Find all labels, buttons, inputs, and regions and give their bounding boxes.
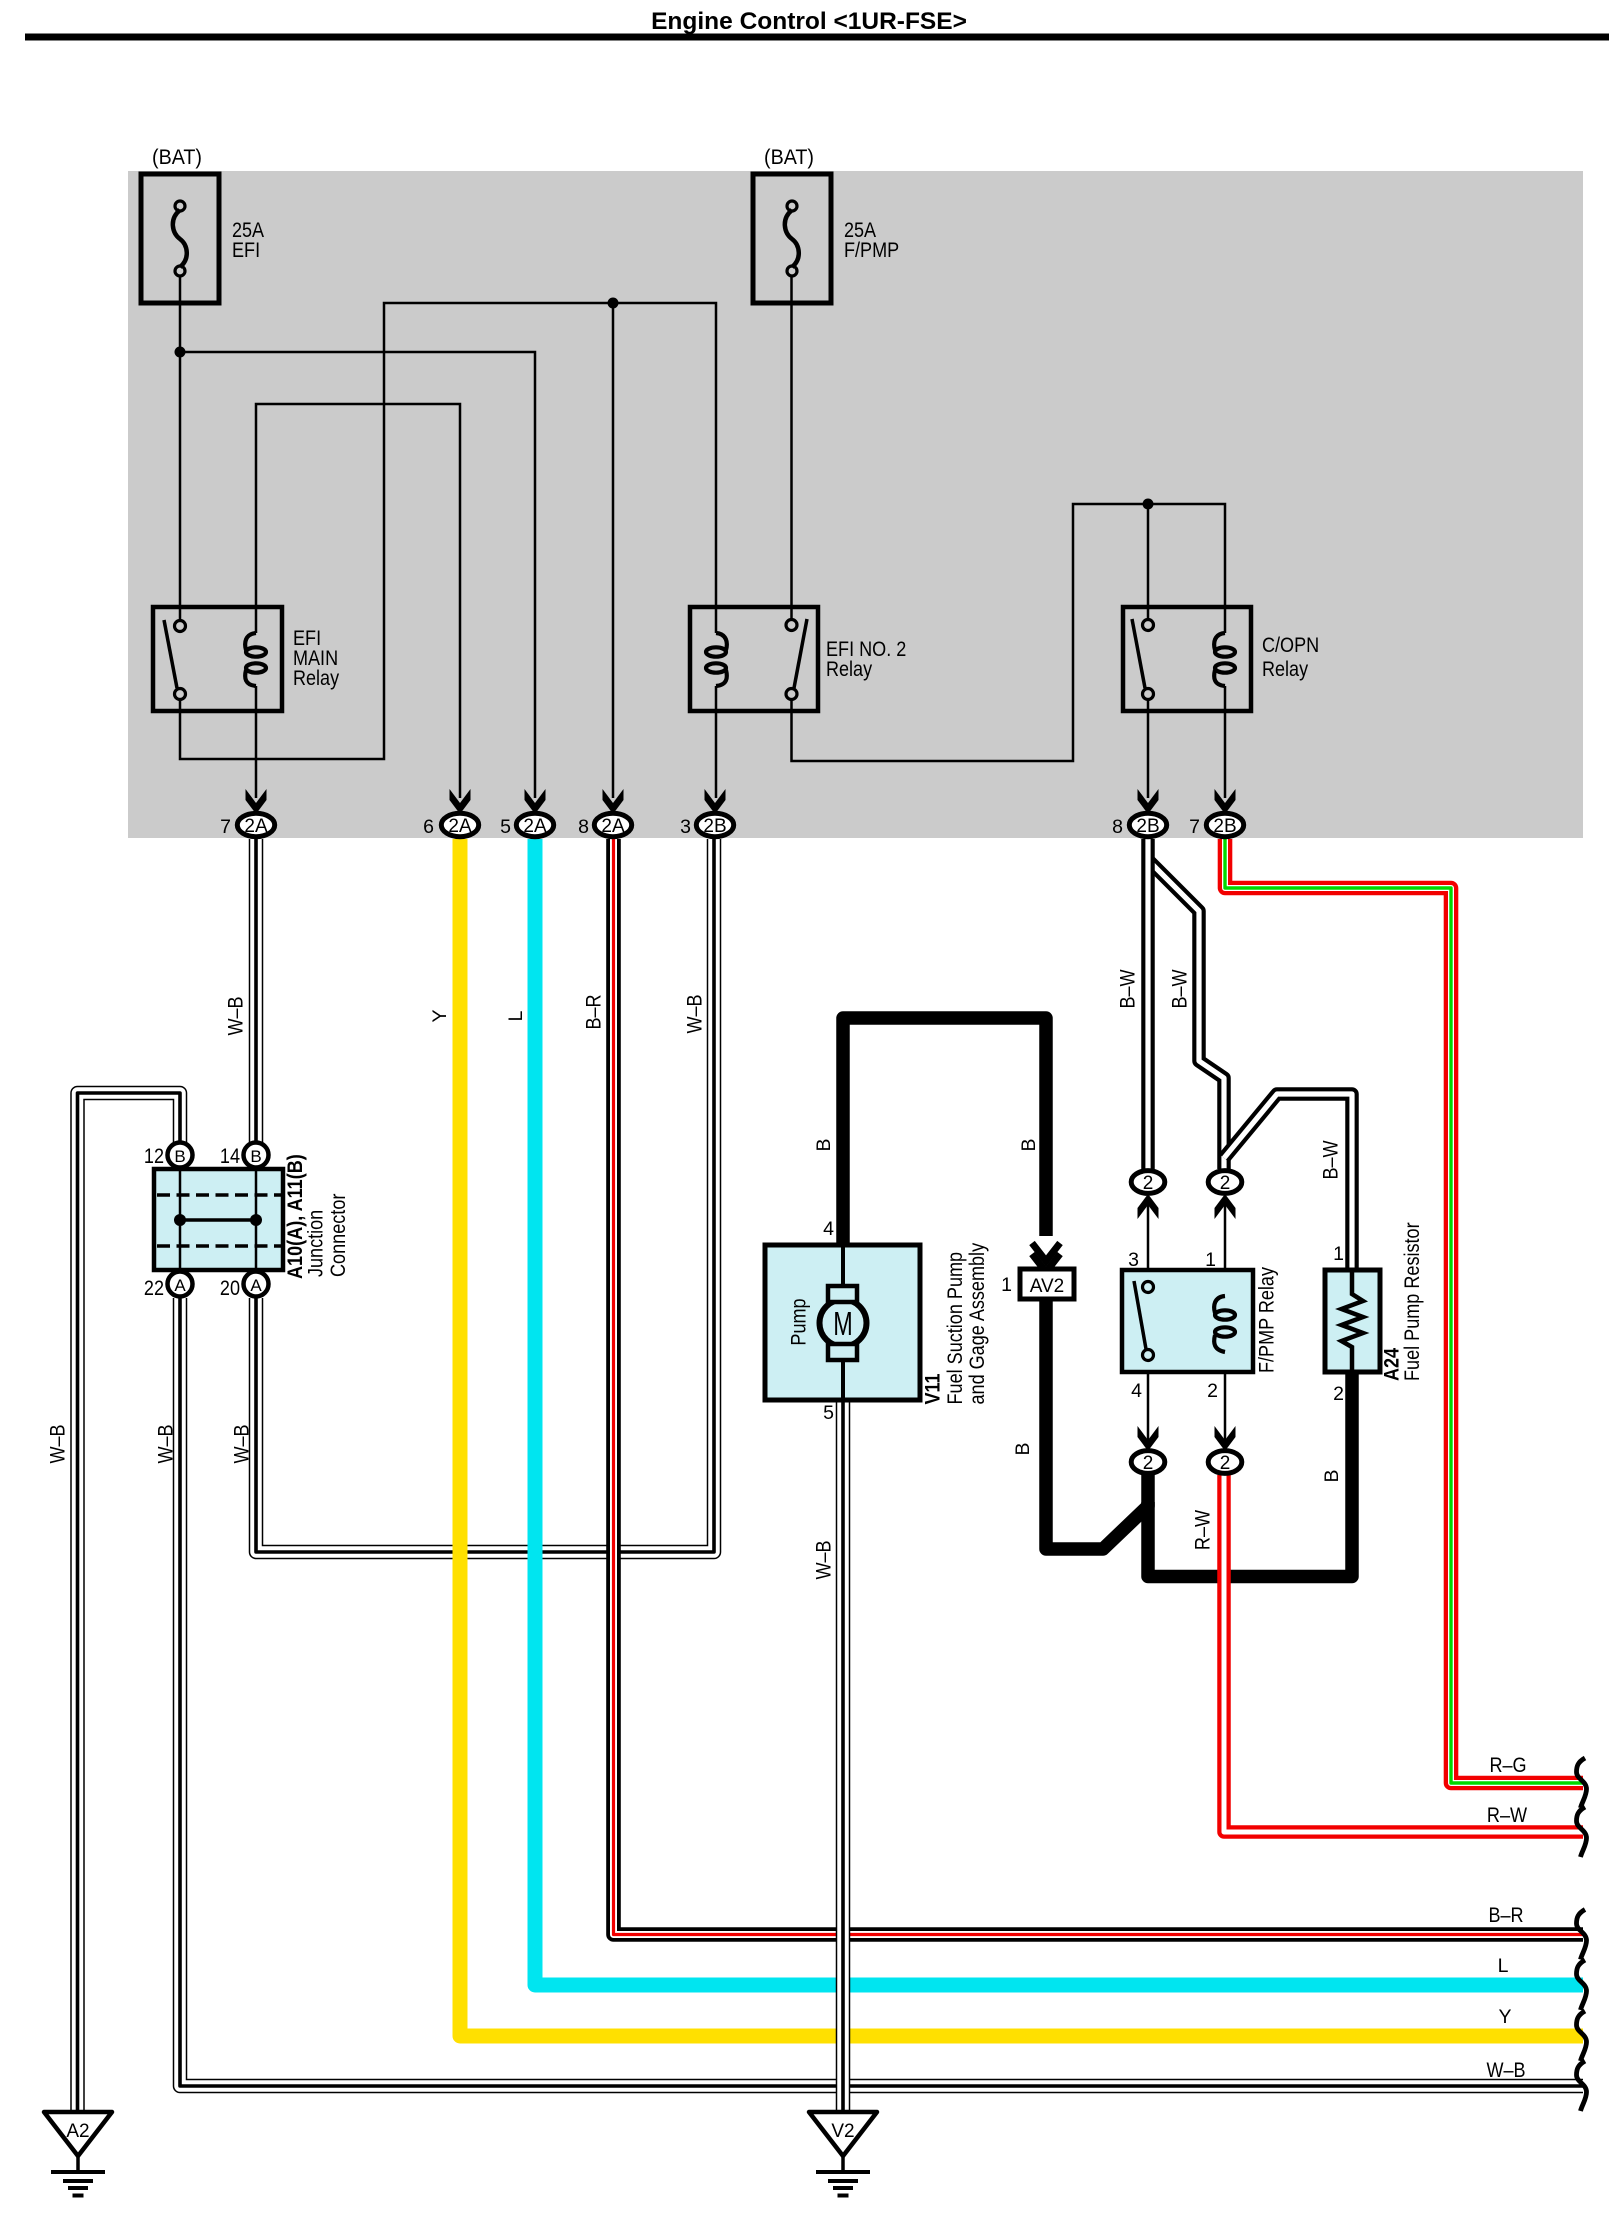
svg-text:B–W: B–W xyxy=(1117,969,1140,1008)
svg-text:F/PMP: F/PMP xyxy=(844,239,899,262)
relay EFI MAIN U1 xyxy=(153,607,340,711)
ground A2 xyxy=(44,2112,112,2196)
svg-text:12: 12 xyxy=(144,1145,164,1168)
svg-text:2: 2 xyxy=(1143,1453,1154,1474)
svg-text:2B: 2B xyxy=(703,816,726,837)
svg-text:A: A xyxy=(174,1276,186,1295)
svg-text:and Gage Assembly: and Gage Assembly xyxy=(966,1242,989,1404)
fuse EFI 25A xyxy=(141,146,264,303)
svg-text:3: 3 xyxy=(680,816,691,838)
wire B-W from pin1 connector to A24 pin1 xyxy=(1224,1094,1352,1270)
wire B-W branch from 8(2B) to F/PMP relay pin1 connector xyxy=(1148,860,1224,1169)
svg-text:2: 2 xyxy=(1220,1173,1231,1194)
svg-text:A2: A2 xyxy=(66,2121,89,2142)
svg-text:Connector: Connector xyxy=(327,1194,350,1277)
svg-text:B–R: B–R xyxy=(1488,1904,1523,1927)
svg-text:B: B xyxy=(1321,1469,1343,1482)
svg-text:W–B: W–B xyxy=(231,1424,254,1463)
connector 2 pin2 F/PMP relay xyxy=(1208,1426,1242,1474)
connector 6 2A xyxy=(450,789,471,814)
svg-text:2: 2 xyxy=(1207,1380,1218,1402)
svg-text:4: 4 xyxy=(823,1218,834,1240)
wire B thick: pump pin4 to AV2 xyxy=(843,1018,1046,1245)
svg-text:2A: 2A xyxy=(601,816,625,837)
wire: EFI MAIN relay coil loop to 6(2A) xyxy=(256,404,460,798)
svg-text:W–B: W–B xyxy=(684,994,707,1033)
wire: EFI MAIN relay switch bottom loop to EFI NO.2 relay coil xyxy=(180,303,716,759)
svg-text:Pump: Pump xyxy=(788,1298,811,1345)
svg-text:Fuel Suction Pump: Fuel Suction Pump xyxy=(944,1252,967,1405)
svg-text:V11: V11 xyxy=(922,1373,945,1404)
svg-text:V2: V2 xyxy=(831,2121,854,2142)
svg-text:M: M xyxy=(833,1305,853,1342)
wire: F/PMP fuse to EFI NO.2 relay switch xyxy=(790,277,793,620)
svg-text:B: B xyxy=(174,1147,185,1166)
connector 2 pin3 F/PMP relay xyxy=(1131,1171,1165,1219)
junction dot at EFI fuse branch xyxy=(175,347,186,358)
svg-text:R–G: R–G xyxy=(1489,1754,1526,1777)
svg-text:(BAT): (BAT) xyxy=(764,146,814,169)
relay C/OPN xyxy=(1123,607,1319,711)
wire R-W from F/PMP relay pin2 connector to right edge xyxy=(1192,1475,1584,1832)
wire W-B from 3(2B) to junction connector 20(A) xyxy=(231,839,715,1552)
wire: fused B+ branch to 5(2A) xyxy=(180,352,535,798)
svg-text:8: 8 xyxy=(578,816,589,838)
title Engine Control 1UR-FSE xyxy=(25,8,1609,41)
wire Y from 6(2A) to right edge xyxy=(429,839,1583,2036)
svg-text:B: B xyxy=(1012,1442,1034,1455)
wire: C/OPN relay coil bottom to 7(2B) xyxy=(1224,686,1227,798)
ground V2 xyxy=(809,2112,877,2196)
svg-text:22: 22 xyxy=(144,1277,164,1300)
connector 2 pin1 F/PMP relay xyxy=(1208,1171,1242,1219)
svg-text:Junction: Junction xyxy=(305,1210,328,1277)
connector 7 2A xyxy=(246,789,267,814)
svg-text:W–B: W–B xyxy=(47,1424,70,1463)
wire: branch down to 8(2A) xyxy=(612,303,615,798)
svg-text:B–R: B–R xyxy=(583,994,606,1029)
connector AV2 xyxy=(1001,1243,1074,1299)
right edge wire exit labels and braces xyxy=(1486,1754,1586,2111)
svg-text:2: 2 xyxy=(1333,1383,1344,1405)
svg-text:1: 1 xyxy=(1333,1243,1344,1265)
wire R-G from 7(2B) to right edge xyxy=(1225,839,1583,1783)
svg-text:Fuel Pump Resistor: Fuel Pump Resistor xyxy=(1401,1222,1424,1381)
wire B-W from 8(2B) to F/PMP relay pin3 connector xyxy=(1117,839,1149,1169)
wire: F/PMP relay pin2 xyxy=(1224,1352,1227,1448)
junction connector A10(A) A11(B) xyxy=(144,1143,350,1301)
svg-text:2: 2 xyxy=(1143,1173,1154,1194)
svg-text:5: 5 xyxy=(500,816,511,838)
svg-text:7: 7 xyxy=(220,816,231,838)
svg-text:Relay: Relay xyxy=(1262,658,1309,681)
svg-text:(BAT): (BAT) xyxy=(152,146,202,169)
wire B-R from 8(2A) to right edge xyxy=(583,839,1584,1935)
svg-text:EFI: EFI xyxy=(232,239,260,262)
wire B thick: F/PMP relay pin4 connector to A24 pin2 xyxy=(1148,1372,1352,1577)
svg-text:6: 6 xyxy=(423,816,434,838)
svg-text:2A: 2A xyxy=(523,816,547,837)
resistor A24 fuel pump resistor xyxy=(1325,1222,1424,1405)
svg-text:AV2: AV2 xyxy=(1030,1276,1065,1297)
relay F/PMP xyxy=(1122,1249,1279,1402)
ECU internal gray area xyxy=(128,171,1583,838)
svg-text:Y: Y xyxy=(429,1009,451,1022)
svg-text:2B: 2B xyxy=(1136,816,1159,837)
relay EFI NO.2 xyxy=(690,607,906,711)
svg-text:W–B: W–B xyxy=(813,1540,836,1579)
svg-text:1: 1 xyxy=(1001,1274,1012,1296)
svg-text:B–W: B–W xyxy=(1169,969,1192,1008)
wire: EFI MAIN relay coil bottom to 7(2A) xyxy=(255,686,258,798)
svg-text:W–B: W–B xyxy=(155,1424,178,1463)
connector 8 2A xyxy=(603,789,624,814)
fuse F/PMP 25A xyxy=(753,146,899,303)
wire W-B from pump pin5 to ground V2 xyxy=(813,1400,844,2112)
connector 3 2B xyxy=(705,789,726,814)
svg-text:20: 20 xyxy=(220,1277,240,1300)
pump V11 fuel suction pump xyxy=(765,1218,989,1424)
svg-text:R–W: R–W xyxy=(1192,1510,1215,1550)
svg-text:2: 2 xyxy=(1220,1453,1231,1474)
connector ovals and arrows at ECU boundary xyxy=(220,789,1244,838)
svg-text:B–W: B–W xyxy=(1320,1140,1343,1179)
wire: F/PMP relay pin3 xyxy=(1147,1197,1150,1282)
wire W-B from 7(2A) to 14(B) xyxy=(225,839,257,1143)
wire: EFI NO.2 relay coil bottom to 3(2B) xyxy=(715,686,718,798)
wire: C/OPN relay switch bottom to 8(2B) xyxy=(1147,699,1150,798)
wire L from 5(2A) to right edge xyxy=(505,839,1583,1985)
svg-text:C/OPN: C/OPN xyxy=(1262,634,1319,657)
svg-text:1: 1 xyxy=(1205,1249,1216,1271)
svg-text:A: A xyxy=(250,1276,262,1295)
connector 7 2B xyxy=(1215,789,1236,814)
wire B thick: AV2 to F/PMP relay pin4 connector xyxy=(1046,1299,1148,1549)
connector 5 2A xyxy=(525,789,546,814)
junction dot above C/OPN relay switch xyxy=(1143,499,1154,510)
connector 8 2B xyxy=(1138,789,1159,814)
wire: F/PMP relay pin1 xyxy=(1224,1197,1227,1296)
svg-text:5: 5 xyxy=(823,1402,834,1424)
wire: F/PMP relay pin4 xyxy=(1147,1360,1150,1448)
svg-text:2B: 2B xyxy=(1213,816,1236,837)
wire: branch to C/OPN relay switch xyxy=(1147,504,1150,620)
svg-text:4: 4 xyxy=(1131,1380,1142,1402)
wire W-B from 12(B) to ground A2 xyxy=(47,1093,181,2112)
svg-text:Engine Control <1UR-FSE>: Engine Control <1UR-FSE> xyxy=(651,8,967,35)
svg-text:W–B: W–B xyxy=(1486,2059,1525,2082)
svg-text:Relay: Relay xyxy=(293,667,340,690)
wire: EFI fuse to EFI MAIN relay switch xyxy=(179,277,182,621)
svg-text:Relay: Relay xyxy=(826,658,873,681)
svg-text:L: L xyxy=(505,1010,527,1021)
svg-text:R–W: R–W xyxy=(1487,1804,1527,1827)
svg-text:Y: Y xyxy=(1498,2006,1511,2028)
svg-text:2A: 2A xyxy=(448,816,472,837)
svg-text:7: 7 xyxy=(1189,816,1200,838)
junction dot feeding 8(2A) xyxy=(608,298,619,309)
svg-text:14: 14 xyxy=(220,1145,240,1168)
svg-text:L: L xyxy=(1498,1955,1509,1977)
wire: EFI NO.2 relay switch bottom to C/OPN relay feed xyxy=(792,504,1226,761)
svg-text:B: B xyxy=(250,1147,261,1166)
svg-text:B: B xyxy=(813,1138,835,1151)
svg-text:3: 3 xyxy=(1128,1249,1139,1271)
svg-text:F/PMP Relay: F/PMP Relay xyxy=(1256,1267,1279,1373)
connector 2 pin4 F/PMP relay xyxy=(1131,1426,1165,1474)
wire W-B from 22(A) to right edge xyxy=(155,1298,1584,2086)
svg-text:8: 8 xyxy=(1112,816,1123,838)
svg-text:B: B xyxy=(1018,1138,1040,1151)
svg-text:W–B: W–B xyxy=(225,996,248,1035)
svg-text:2A: 2A xyxy=(244,816,268,837)
